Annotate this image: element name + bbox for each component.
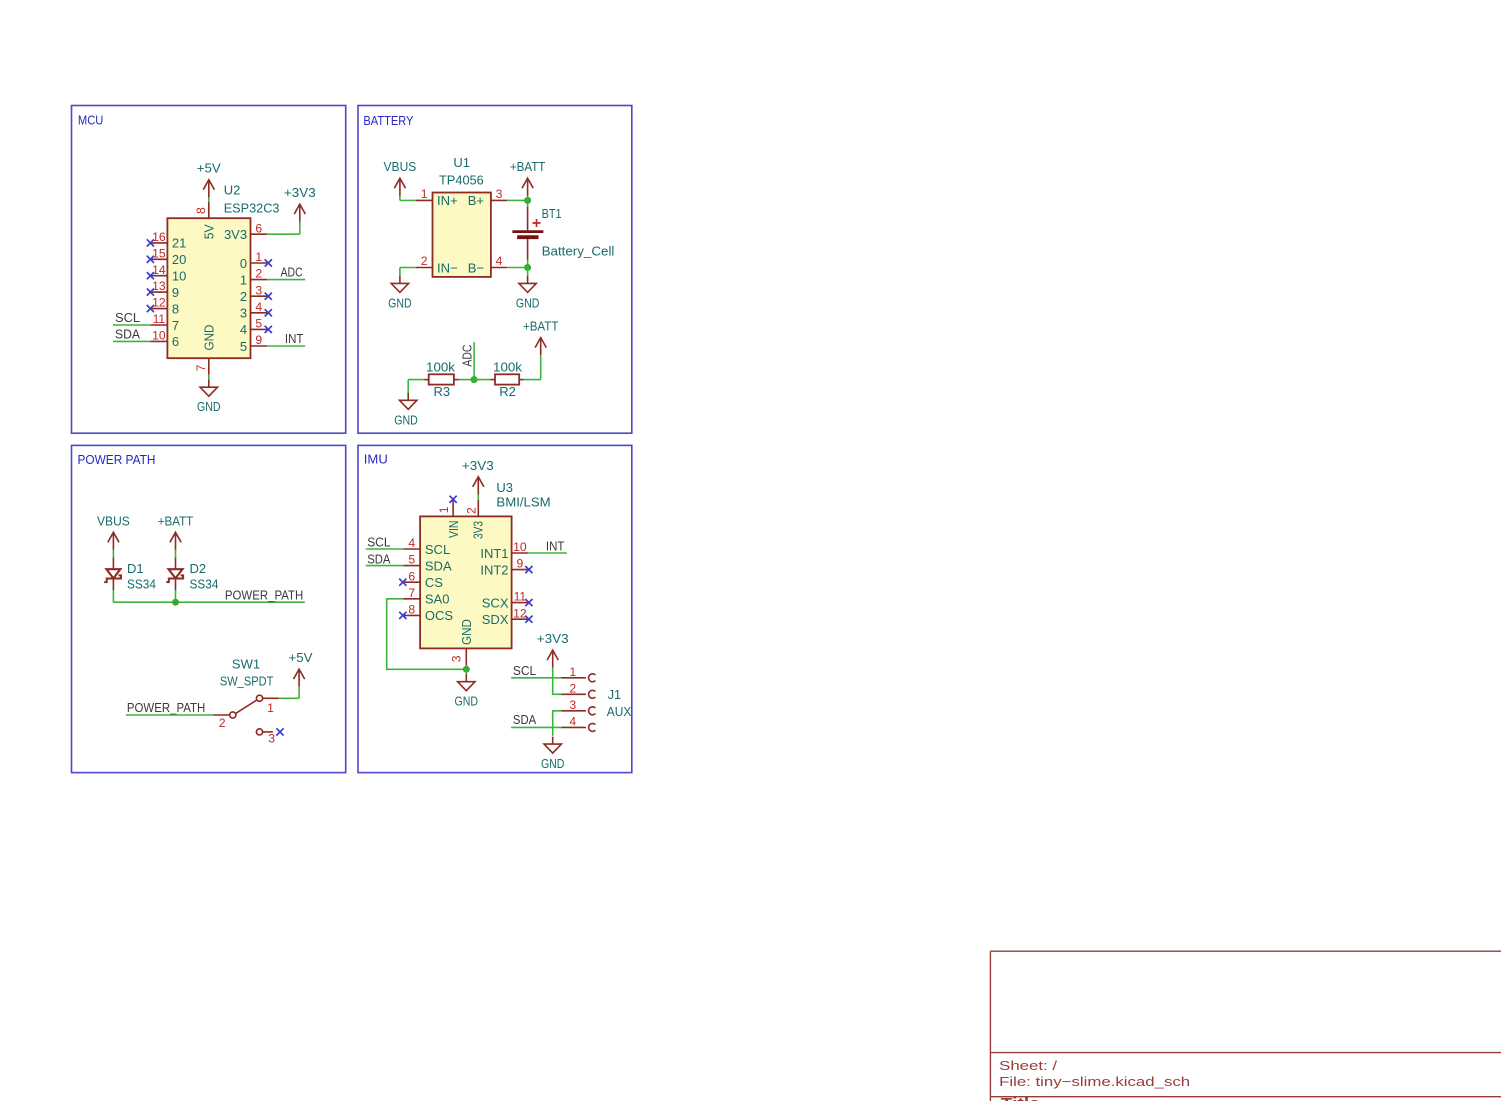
svg-text:GND: GND <box>541 756 565 771</box>
svg-text:1: 1 <box>267 701 274 715</box>
svg-text:File: tiny−slime.kicad_sch: File: tiny−slime.kicad_sch <box>999 1074 1190 1089</box>
svg-text:IN+: IN+ <box>437 193 458 208</box>
svg-text:SW1: SW1 <box>232 657 260 672</box>
svg-text:U3: U3 <box>496 480 513 495</box>
svg-text:POWER_PATH: POWER_PATH <box>127 700 205 715</box>
wire U1 pin 4 to node B- <box>507 267 527 269</box>
svg-text:10: 10 <box>513 540 527 554</box>
U2 no-connect pin 5 <box>265 326 272 333</box>
wire U3 3V3 pin to +3V3 <box>477 494 479 500</box>
MCU section box <box>72 106 346 434</box>
U2 no-connect pin 13 <box>147 289 154 296</box>
svg-text:POWER_PATH: POWER_PATH <box>225 588 303 603</box>
U3 left pin 4 (SCL) stub <box>404 548 421 550</box>
svg-text:SW_SPDT: SW_SPDT <box>220 673 274 688</box>
U3 top pin 2 (3V3) stub <box>477 500 479 517</box>
svg-text:SCX: SCX <box>482 595 509 610</box>
U3 right pin 11 (SCX) stub <box>512 602 529 604</box>
power symbol VBUS (BATTERY) <box>394 178 405 196</box>
power symbol +BATT (POWER PATH) <box>170 532 181 550</box>
SW1 no-connect pin 3 <box>276 728 283 735</box>
ground symbol (BT1) <box>519 276 536 293</box>
svg-text:TP4056: TP4056 <box>439 173 484 188</box>
svg-text:13: 13 <box>152 279 166 293</box>
svg-text:8: 8 <box>194 207 208 214</box>
U2 right pin 5 (4) stub <box>251 328 268 330</box>
U2 left pin 13 (9) stub <box>150 291 167 293</box>
BATTERY section box <box>358 106 632 434</box>
U3 no-connect <box>525 566 532 573</box>
power symbol +3V3 (IMU) <box>473 477 484 495</box>
power symbol +5V (POWER PATH) <box>294 669 305 687</box>
svg-text:ESP32C3: ESP32C3 <box>224 201 280 216</box>
POWER PATH section box <box>72 445 346 772</box>
svg-text:8: 8 <box>172 301 179 316</box>
svg-text:+3V3: +3V3 <box>537 631 569 646</box>
svg-text:12: 12 <box>152 296 166 310</box>
svg-text:SDA: SDA <box>115 326 140 341</box>
wire U1 pin 2 to ground <box>400 267 416 269</box>
wire SCL to U3 pin 4 <box>366 548 404 550</box>
power symbol +3V3 (J1) <box>547 650 558 668</box>
U1 pin 2 (IN-) stub <box>416 267 433 269</box>
svg-text:2: 2 <box>219 716 226 730</box>
resistor R2 <box>490 374 523 384</box>
U2 right pin 1 (0) stub <box>251 262 268 264</box>
wire U2 3V3 pin to +3V3 power <box>267 233 300 235</box>
svg-text:2: 2 <box>421 254 428 268</box>
wire U2 GND pin to ground <box>208 375 210 380</box>
connector J1 pins <box>562 674 596 732</box>
svg-text:ADC: ADC <box>459 345 474 367</box>
svg-text:BATTERY: BATTERY <box>363 113 413 128</box>
power symbol +BATT (BATTERY top) <box>522 178 533 196</box>
svg-text:3: 3 <box>569 698 576 712</box>
title block frame <box>990 951 1501 1101</box>
svg-text:8: 8 <box>408 603 415 617</box>
wire 5V pin to +5V power <box>208 197 210 202</box>
wire J1 pin 3 to GND leg <box>553 711 562 736</box>
svg-text:SS34: SS34 <box>127 577 156 592</box>
svg-text:3V3: 3V3 <box>471 521 486 539</box>
svg-text:CS: CS <box>425 575 443 590</box>
U2 left pin 16 (21) stub <box>150 242 167 244</box>
svg-text:+5V: +5V <box>289 650 313 665</box>
svg-text:7: 7 <box>194 364 208 371</box>
svg-text:MCU: MCU <box>78 113 104 128</box>
svg-text:SDA: SDA <box>425 558 452 573</box>
svg-text:3: 3 <box>240 306 247 321</box>
svg-text:Title: Title <box>1001 1096 1040 1101</box>
svg-text:21: 21 <box>172 236 186 251</box>
svg-text:R2: R2 <box>499 384 516 399</box>
wire VBUS to D1 anode <box>112 549 114 558</box>
svg-text:B+: B+ <box>468 193 484 208</box>
wire ground leg to R3 <box>408 379 424 381</box>
U2 no-connect pin 3 <box>265 293 272 300</box>
svg-text:9: 9 <box>172 285 179 300</box>
U2 left pin 11 (7) stub <box>150 324 167 326</box>
svg-text:ADC: ADC <box>281 265 303 280</box>
diode D1 SS34 <box>104 558 121 590</box>
wire SDA to J1 pin 4 <box>511 726 561 728</box>
wire junction down to ground <box>527 268 529 277</box>
U3 left pin 6 (CS) stub <box>404 581 421 583</box>
svg-text:VBUS: VBUS <box>384 159 417 174</box>
ground symbol (U1 IN-) <box>391 276 408 293</box>
U2 no-connect pin 14 <box>147 272 154 279</box>
svg-text:14: 14 <box>152 263 166 277</box>
svg-text:0: 0 <box>240 256 247 271</box>
svg-text:20: 20 <box>172 252 186 267</box>
svg-text:SCL: SCL <box>425 542 450 557</box>
wire SDA to U3 pin 5 <box>366 565 404 567</box>
svg-text:11: 11 <box>514 590 527 604</box>
svg-text:INT: INT <box>285 331 304 346</box>
svg-text:SS34: SS34 <box>190 577 219 592</box>
svg-text:2: 2 <box>255 267 262 281</box>
U3 left pin 5 (SDA) stub <box>404 565 421 567</box>
svg-text:SDA: SDA <box>367 551 391 566</box>
U3 no-connect pin 6 (CS) <box>399 579 406 586</box>
svg-text:GND: GND <box>394 412 418 427</box>
svg-text:9: 9 <box>517 557 524 571</box>
svg-text:4: 4 <box>240 322 247 337</box>
svg-text:GND: GND <box>516 295 540 310</box>
svg-text:3V3: 3V3 <box>224 227 247 242</box>
power symbol +BATT (divider) <box>535 338 546 356</box>
ground symbol (MCU) <box>200 380 217 397</box>
ground symbol (J1) <box>544 737 561 754</box>
svg-text:1: 1 <box>255 250 262 264</box>
U2 no-connect pin 16 <box>147 239 154 246</box>
U3 right pin 9 (INT2) stub <box>512 569 529 571</box>
svg-text:U2: U2 <box>224 183 241 198</box>
svg-text:J1: J1 <box>608 687 621 702</box>
svg-text:GND: GND <box>388 295 412 310</box>
U2 no-connect pin 1 <box>265 259 272 266</box>
U2 left pin 14 (10) stub <box>150 275 167 277</box>
svg-text:+3V3: +3V3 <box>284 185 316 200</box>
svg-text:4: 4 <box>496 254 503 268</box>
wire SA0 pin to ground net <box>387 599 467 670</box>
U1 pin 4 (B-) stub <box>491 267 507 269</box>
wire junction to ground <box>465 669 467 674</box>
U3 no-connect pin 1 <box>450 496 457 503</box>
svg-text:B−: B− <box>468 260 484 275</box>
svg-text:Sheet: /: Sheet: / <box>999 1058 1057 1073</box>
U3 no-connect <box>525 616 532 623</box>
wire U2 pin 2 to ADC label <box>267 279 305 281</box>
svg-text:9: 9 <box>255 333 262 347</box>
IMU section box <box>358 445 632 772</box>
svg-text:1: 1 <box>240 272 247 287</box>
wire SCL to J1 pin 1 <box>511 677 561 679</box>
svg-text:6: 6 <box>172 334 179 349</box>
svg-text:1: 1 <box>569 665 576 679</box>
svg-text:SCL: SCL <box>115 310 140 325</box>
svg-text:+BATT: +BATT <box>510 159 546 174</box>
svg-text:4: 4 <box>255 300 262 314</box>
U3 no-connect <box>525 599 532 606</box>
ground symbol (U3) <box>458 674 475 691</box>
svg-text:1: 1 <box>421 187 428 201</box>
wire U2 pin 9 to INT label <box>267 345 305 347</box>
wire +3V3 to J1 pin 2 <box>553 668 562 695</box>
junction node U3 GND <box>463 666 470 673</box>
wire SDA to U2 pin 10 <box>113 340 150 342</box>
svg-text:12: 12 <box>513 606 527 620</box>
U2 right pin 6 (3V3) stub <box>251 233 268 235</box>
wire U3 INT1 to INT label <box>528 552 567 554</box>
svg-text:GND: GND <box>459 619 474 645</box>
ground symbol (divider) <box>400 393 417 410</box>
svg-text:100k: 100k <box>493 360 522 375</box>
wire VBUS power to U1 pin 1 <box>400 199 416 201</box>
svg-text:IMU: IMU <box>364 451 388 466</box>
svg-text:4: 4 <box>408 536 415 550</box>
junction node ADC divider <box>471 376 478 383</box>
svg-text:+BATT: +BATT <box>158 513 194 528</box>
svg-text:INT2: INT2 <box>480 562 508 577</box>
U3 right pin 10 (INT1) stub <box>512 552 529 554</box>
wire junction to R2 <box>474 379 490 381</box>
svg-text:7: 7 <box>172 318 179 333</box>
svg-text:15: 15 <box>152 246 166 260</box>
svg-text:16: 16 <box>152 230 166 244</box>
svg-text:6: 6 <box>255 221 262 235</box>
U2 right pin 2 (1) stub <box>251 279 268 281</box>
switch SW1 SW_SPDT <box>213 695 278 735</box>
wire SCL to U2 pin 11 <box>113 324 150 326</box>
svg-text:D1: D1 <box>127 561 144 576</box>
svg-text:6: 6 <box>408 569 415 583</box>
wire IN- ground stub <box>399 273 401 277</box>
U2 no-connect pin 4 <box>265 309 272 316</box>
wire D1 cathode to power path node <box>112 590 114 602</box>
wire VBUS vertical <box>399 195 401 200</box>
BATTERY U1 body <box>433 193 491 277</box>
svg-text:10: 10 <box>172 269 186 284</box>
svg-text:+5V: +5V <box>197 161 221 176</box>
svg-text:SDX: SDX <box>482 612 509 627</box>
U2 left pin 12 (8) stub <box>150 308 167 310</box>
U3 no-connect pin 8 (OCS) <box>399 612 406 619</box>
wire SW1 pin 1 to +5V <box>279 697 300 699</box>
junction node +BATT top <box>524 197 531 204</box>
svg-text:GND: GND <box>202 325 217 351</box>
wire R2 to +BATT leg <box>524 379 541 381</box>
diode D2 SS34 <box>166 558 183 590</box>
power symbol +5V (MCU) <box>203 180 214 198</box>
junction node POWER_PATH <box>172 599 179 606</box>
junction node B- bottom <box>524 264 531 271</box>
U1 pin 1 (IN+) stub <box>416 199 433 201</box>
battery BT1 <box>512 203 543 260</box>
svg-text:VIN: VIN <box>446 521 461 539</box>
U3 right pin 12 (SDX) stub <box>512 618 529 620</box>
svg-text:7: 7 <box>408 586 415 600</box>
svg-text:3: 3 <box>268 732 275 746</box>
MCU U2 body <box>167 218 250 358</box>
svg-text:SCL: SCL <box>513 663 536 678</box>
U2 left pin 15 (20) stub <box>150 258 167 260</box>
U2 left pin 10 (6) stub <box>150 340 167 342</box>
svg-text:R3: R3 <box>433 384 450 399</box>
svg-text:AUX: AUX <box>607 704 632 719</box>
svg-text:+BATT: +BATT <box>523 319 559 334</box>
svg-text:IN−: IN− <box>437 260 458 275</box>
svg-text:Battery_Cell: Battery_Cell <box>542 243 615 258</box>
svg-text:OCS: OCS <box>425 608 454 623</box>
U3 left pin 7 (SA0) stub <box>404 598 421 600</box>
U3 top pin 1 (VIN) stub <box>452 500 454 517</box>
svg-text:5V: 5V <box>202 224 217 239</box>
wire U1 pin 3 to node B+ <box>507 199 527 201</box>
wire +BATT to D2 anode <box>175 549 177 558</box>
wire D2 cathode to power path node <box>175 590 177 602</box>
svg-text:3: 3 <box>449 655 463 662</box>
svg-text:1: 1 <box>437 506 451 513</box>
svg-text:10: 10 <box>152 329 166 343</box>
svg-text:5: 5 <box>408 553 415 567</box>
U2 bottom pin 7 (GND) stub <box>208 358 210 375</box>
svg-text:5: 5 <box>240 339 247 354</box>
power symbol +3V3 (MCU) <box>294 204 305 222</box>
svg-text:INT1: INT1 <box>480 546 508 561</box>
U2 no-connect pin 12 <box>147 305 154 312</box>
wire junction up to +BATT power <box>527 195 529 200</box>
U1 pin 3 (B+) stub <box>491 199 507 201</box>
U2 top pin 8 (5V) stub <box>208 202 210 218</box>
svg-text:2: 2 <box>240 289 247 304</box>
power symbol VBUS (POWER PATH) <box>108 532 119 550</box>
IMU U3 body <box>420 516 512 648</box>
svg-text:5: 5 <box>255 317 262 331</box>
svg-text:U1: U1 <box>453 155 470 170</box>
svg-text:3: 3 <box>496 187 503 201</box>
wire POWER_PATH bus <box>113 601 304 603</box>
svg-text:GND: GND <box>455 694 479 709</box>
svg-text:SA0: SA0 <box>425 592 450 607</box>
wire R3 to junction <box>459 379 475 381</box>
wire U3 GND pin to node <box>465 665 467 669</box>
svg-text:3: 3 <box>255 283 262 297</box>
wire POWER_PATH to SW1 pin 2 <box>126 714 214 716</box>
svg-text:BMI/LSM: BMI/LSM <box>496 494 550 509</box>
U2 right pin 9 (5) stub <box>251 345 268 347</box>
svg-text:VBUS: VBUS <box>97 513 130 528</box>
svg-text:INT: INT <box>546 539 565 554</box>
U3 left pin 8 (OCS) stub <box>404 614 421 616</box>
svg-text:SCL: SCL <box>367 535 390 550</box>
U3 bottom pin 3 (GND) stub <box>465 648 467 666</box>
svg-text:POWER PATH: POWER PATH <box>78 452 156 467</box>
wire ADC net vertical <box>473 342 475 380</box>
resistor R3 <box>424 374 458 384</box>
svg-text:11: 11 <box>153 312 166 326</box>
svg-text:SDA: SDA <box>513 712 537 727</box>
U2 no-connect pin 15 <box>147 256 154 263</box>
svg-text:2: 2 <box>465 507 479 514</box>
U2 right pin 4 (3) stub <box>251 312 268 314</box>
svg-text:4: 4 <box>569 715 576 729</box>
wire battery bottom to node <box>527 260 529 268</box>
svg-text:+3V3: +3V3 <box>462 458 494 473</box>
svg-text:100k: 100k <box>426 360 455 375</box>
svg-text:GND: GND <box>197 399 221 414</box>
U2 right pin 3 (2) stub <box>251 295 268 297</box>
svg-text:BT1: BT1 <box>542 206 562 221</box>
svg-text:2: 2 <box>569 681 576 695</box>
svg-text:D2: D2 <box>190 561 207 576</box>
